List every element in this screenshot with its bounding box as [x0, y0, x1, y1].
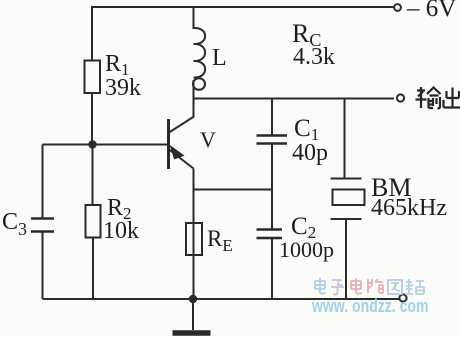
wire bottom rail	[43, 298, 400, 300]
wire R2 bottom to ground rail	[92, 238, 94, 300]
label 4.3k	[293, 44, 335, 71]
wire left vertical (top rail to R1)	[91, 6, 93, 61]
label 39k	[105, 75, 141, 102]
label R2	[107, 195, 132, 224]
terminal bottom right	[399, 294, 406, 301]
capacitor C1	[257, 136, 288, 144]
label -6V	[407, 0, 456, 23]
label 1000p	[279, 237, 334, 263]
label C2	[291, 213, 316, 243]
wire output rail	[194, 98, 395, 100]
wire emitter down to ground rail	[193, 169, 195, 300]
label RC	[292, 19, 321, 51]
label C3	[2, 209, 27, 240]
ground	[192, 299, 194, 330]
wire L bottom / collector node	[193, 80, 195, 117]
wire R1 bottom to base node	[91, 93, 93, 145]
wire C3 to bottom rail	[42, 232, 44, 300]
resistor RE	[186, 223, 202, 255]
label 10k	[103, 218, 139, 245]
watermark 电子电路图站	[312, 277, 432, 297]
resistor R1	[85, 61, 101, 94]
terminal output	[397, 94, 404, 101]
wire emitter tap to capacitor divider	[194, 189, 273, 191]
label 465kHz	[371, 195, 447, 222]
wire base node down to R2	[92, 145, 94, 206]
label R1	[105, 51, 130, 80]
wire C3 branch down from base line	[42, 145, 44, 219]
capacitor C2	[257, 230, 283, 239]
label L	[212, 45, 227, 72]
label 输出 (drawn glyphs)	[414, 85, 460, 111]
capacitor C3	[31, 219, 54, 232]
crystal BM	[331, 178, 362, 180]
resistor R2	[86, 205, 101, 238]
wire C2 to bottom rail	[271, 238, 273, 299]
terminal -6V	[394, 4, 401, 11]
wire top rail	[92, 6, 394, 8]
wire C1 to tap node	[271, 144, 273, 231]
node base junction	[88, 140, 96, 148]
watermark www.ondzz.com	[312, 296, 428, 317]
label 40p	[292, 140, 328, 167]
wire BM to bottom rail	[345, 219, 347, 299]
wire BM column top	[344, 99, 346, 179]
wire capacitor column top	[271, 99, 273, 136]
inductor L	[194, 6, 206, 78]
label V	[200, 127, 216, 153]
label BM	[371, 173, 411, 203]
wire base line	[43, 144, 169, 146]
node emitter-ground junction	[189, 295, 197, 303]
label RE	[207, 226, 233, 256]
label C1	[294, 115, 319, 145]
transistor V (base bar, collector lead, emitter lead with PNP arrow)	[167, 119, 170, 169]
